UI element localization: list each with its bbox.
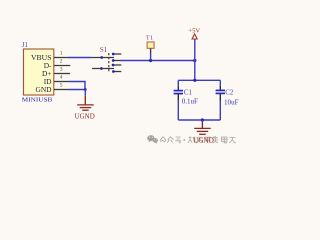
switch S1 common pin A: [91, 57, 115, 59]
ground UGND symbol under J1: [77, 104, 94, 106]
switch S1 node common B: [100, 67, 103, 70]
capacitor C2 top wire: [219, 80, 221, 86]
svg-text:C1: C1: [184, 89, 193, 97]
wire ID pin4 elbow down: [70, 82, 86, 90]
capacitor C1 bottom wire: [177, 101, 179, 120]
junction node on bottom rail: [201, 118, 204, 121]
capacitor C2 bottom wire: [219, 101, 221, 121]
junction node at +5V stem: [193, 59, 196, 62]
switch S1 throw pin 3: [113, 64, 121, 66]
testpoint T1 pad: [147, 42, 154, 48]
junction node at T1: [149, 59, 152, 62]
capacitor C1 bottom stub: [177, 94, 179, 101]
J1 pin 2 stub: [54, 65, 70, 67]
svg-text:MINIUSB: MINIUSB: [22, 96, 53, 103]
wire S1 to +5V node: [121, 60, 195, 62]
capacitor C2 top stub: [219, 86, 221, 90]
svg-text:C2: C2: [225, 88, 234, 96]
testpoint T1 stub: [150, 49, 152, 54]
svg-text:J1: J1: [22, 41, 29, 49]
svg-text:2: 2: [60, 59, 63, 65]
connector J1 body: [24, 49, 54, 95]
svg-text:10uF: 10uF: [224, 99, 239, 107]
svg-text:4: 4: [60, 75, 63, 81]
wire VBUS pin1 to S1: [69, 57, 91, 59]
J1 pin 1 stub: [54, 57, 70, 59]
capacitor C1 top stub: [177, 87, 179, 90]
svg-text:GND: GND: [35, 85, 52, 94]
ground UGND symbol bottom right: [194, 127, 211, 129]
watermark wechat icon: [147, 135, 158, 144]
capacitor C2 plates: [216, 89, 225, 91]
svg-text:UGND: UGND: [75, 112, 95, 120]
ground UGND stem (red part): [84, 96, 86, 105]
svg-text:UGND: UGND: [193, 136, 214, 144]
capacitor C1 top wire: [177, 80, 179, 86]
switch S1 throw pin 2: [113, 60, 120, 62]
junction node pin5/pin4: [84, 88, 87, 91]
ground UGND stem bottom right: [201, 120, 203, 123]
junction node on top rail: [193, 79, 196, 82]
capacitor C1 plates: [174, 90, 183, 92]
svg-text:5: 5: [60, 83, 63, 89]
svg-text:T1: T1: [146, 35, 153, 42]
svg-text:0.1uF: 0.1uF: [182, 98, 198, 106]
power +5V stem wire: [194, 40, 196, 81]
power +5V triangle: [192, 34, 197, 39]
switch S1 slider dashed bar: [108, 53, 110, 72]
J1 pin 3 stub: [54, 73, 70, 75]
J1 pin 4 stub: [54, 81, 70, 83]
capacitor C2 bottom stub: [219, 94, 221, 100]
svg-text:1: 1: [60, 51, 63, 57]
svg-text:3: 3: [60, 67, 63, 73]
wire capacitor top rail: [178, 79, 220, 81]
wire GND pin5: [69, 89, 86, 91]
wire capacitor bottom rail: [178, 119, 220, 121]
J1 pin 5 stub: [54, 89, 69, 91]
switch S1 throw pin 1: [113, 53, 121, 55]
switch S1 common pin B: [92, 68, 114, 70]
wire down to UGND (blue part): [84, 90, 86, 96]
svg-text:S1: S1: [100, 46, 108, 54]
wire T1 to bus: [150, 54, 152, 61]
switch S1 node common A: [100, 56, 103, 59]
watermark text 公众号·张飞实战电子 (fake glyph strokes): [160, 136, 181, 142]
switch S1 throw pin 4: [113, 71, 121, 73]
